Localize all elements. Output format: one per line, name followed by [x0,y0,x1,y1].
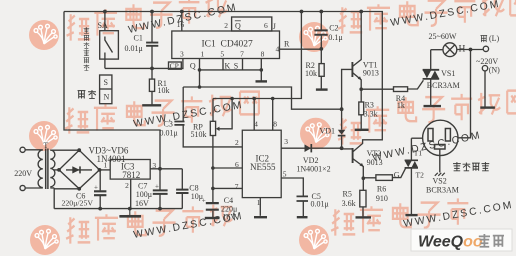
label reed switch chinese column [84,27,90,70]
svg-text:0.01μ: 0.01μ [160,129,178,138]
svg-text:J: J [273,22,276,31]
svg-text:N: N [104,93,110,102]
svg-text:BCR3AM: BCR3AM [426,185,459,194]
resistor R5 [360,178,366,216]
node VD1 top junction [340,107,344,111]
wire pin3 CP stub [182,59,184,70]
resistor R2 [319,49,324,89]
ground below C4 [205,217,220,219]
node C6 bottom [98,207,102,211]
wire pin16 stub [181,12,183,32]
capacitor C4 [206,203,219,217]
terminal L [483,46,488,51]
diode VD1 [338,109,346,148]
capacitor C1 [146,12,158,69]
terminal N [482,66,487,71]
wire IC1 pin4 R reset [280,48,322,50]
svg-text:16V: 16V [222,212,236,221]
node pin7 tap [211,187,215,191]
magnet S/N box [100,75,112,104]
svg-text:220V: 220V [14,169,32,178]
ground below VS1 [424,105,442,107]
ground below R3 [355,129,369,131]
svg-text:C1: C1 [134,34,143,43]
IC IC2 NE555 [242,130,281,197]
svg-text:VS1: VS1 [441,69,455,78]
wire socket right riser [458,50,471,138]
svg-text:10k: 10k [305,69,317,78]
row E bottom-left [66,217,90,243]
svg-text:Q: Q [235,21,241,30]
capacitor C8 [176,169,188,209]
ground below N [480,106,495,108]
transistor VT2 [342,12,383,179]
wire pin5 stub [222,59,224,70]
wire ground minus rail [54,208,182,210]
triac VS2 [405,138,418,214]
wire pin8 stub [260,59,262,82]
svg-text:1N4001×2: 1N4001×2 [296,165,330,174]
triac VS1 [423,50,440,105]
svg-text:2: 2 [235,138,239,147]
potentiometer RP [210,99,232,136]
svg-text:VD1: VD1 [320,126,336,135]
row B top-right [338,7,362,33]
wire IC1 pin2 Qbar to pin6 J link [232,17,272,31]
reed switch SA [100,12,119,69]
bridge rectifier VD3-VD6 [57,148,101,190]
svg-text:0.01μ: 0.01μ [125,44,143,53]
svg-text:R: R [284,40,290,49]
wire pin3 output [281,147,341,149]
svg-text:S: S [234,61,238,70]
svg-text:WeeQoo: WeeQoo [418,234,483,251]
svg-text:5: 5 [220,50,224,59]
node pin4 [252,97,256,101]
svg-text:5: 5 [283,170,287,179]
wire VDD net (wire-B) [213,12,301,99]
svg-text:(L): (L) [489,34,500,43]
label fan chinese [453,162,489,171]
svg-text:16: 16 [177,20,185,29]
capacitor C5 [297,196,309,216]
ground below R5 [356,216,372,218]
wire socket left to VS2 [411,137,422,139]
svg-text:+: + [155,183,159,191]
svg-text:C3: C3 [164,119,173,128]
node SA top [103,10,107,14]
wire pin5 link [281,178,303,196]
wire +12V top rail [64,11,383,13]
svg-text:VS2: VS2 [433,177,447,186]
logo circle top-mid [299,22,329,52]
resistor R4 [361,80,423,91]
transformer T [20,147,55,190]
svg-text:IC1 CD4027: IC1 CD4027 [202,40,253,50]
svg-text:CP: CP [170,62,179,71]
logo circle bottom-mid [299,225,329,255]
svg-text:C8: C8 [189,183,198,192]
svg-text:G: G [394,171,400,180]
wire N to ground [484,71,486,107]
ground below R1 [142,104,161,106]
node pin8 IC2 [271,97,275,101]
wire pin7 stub [242,59,244,70]
node riser top [300,10,304,14]
node R reset [319,47,323,51]
ground below C5 [297,216,308,218]
ground below VS2 [405,214,417,216]
row D mid-right [338,118,362,144]
svg-text:3.3k: 3.3k [364,109,378,118]
lamp H [431,43,484,57]
svg-text:10k: 10k [158,86,170,95]
svg-text:220μ/25V: 220μ/25V [62,199,94,208]
svg-text:1k: 1k [397,101,405,110]
svg-text:3: 3 [152,161,156,170]
svg-text:+: + [94,184,98,192]
wire Q output (wire-A) [183,87,341,109]
svg-text:10μ: 10μ [191,192,203,201]
svg-text:7812: 7812 [122,170,140,180]
label magnet chinese [78,90,96,98]
node pin6 tap [211,166,215,170]
ground below pin8 [256,80,268,82]
svg-text:4: 4 [276,44,280,53]
svg-text:7: 7 [240,50,244,59]
node lamp right [469,48,473,52]
svg-text:VT2: VT2 [367,149,382,158]
wire pin7 link [213,187,242,189]
wire IC3 pin3 out [150,168,182,170]
svg-text:3.6k: 3.6k [342,199,356,208]
resistor R6 [363,168,405,180]
ground main below rail [119,209,141,217]
ground below IC2 pin1 [254,216,267,218]
capacitor C7 [153,169,168,209]
node VT2 emitter [362,176,366,180]
svg-text:4: 4 [254,119,258,128]
svg-text:100μ: 100μ [136,190,152,199]
wire secondary top to bridge [50,149,79,151]
transistor VT1 [352,12,361,90]
svg-text:NE555: NE555 [250,162,276,172]
svg-text:K: K [225,61,231,70]
resistor R1 [149,68,154,104]
resistor R3 [359,89,364,129]
svg-text:1: 1 [201,50,205,59]
capacitor C2 [314,12,327,49]
svg-text:2: 2 [125,181,129,190]
node IC3 pin2 bottom [128,207,132,211]
wire pin6 link [213,167,242,169]
svg-text:3: 3 [284,137,288,146]
wire SA/C1/R1/CP net [105,67,183,69]
logo circle top-left [29,20,59,50]
svg-text:Q: Q [190,62,196,71]
node C7 bottom [158,207,162,211]
node C2 top [319,10,323,14]
svg-text:SA: SA [98,21,108,30]
label box CP [169,62,182,69]
svg-text:6: 6 [235,160,239,169]
diode VD2 [305,144,312,152]
svg-text:910: 910 [376,194,388,203]
label L phase [480,35,487,42]
svg-text:T2: T2 [416,170,425,179]
svg-text:R6: R6 [377,185,386,194]
node C1 bottom junction [150,67,154,71]
svg-text:7: 7 [235,182,239,191]
svg-text:BCR3AM: BCR3AM [427,81,460,90]
svg-text:8: 8 [261,50,265,59]
node pin8 junction [260,68,264,72]
svg-text:1: 1 [257,198,261,207]
svg-text:R5: R5 [343,189,352,198]
ground below R2 [316,88,328,90]
capacitor C6 [94,170,106,209]
svg-text:0.01μ: 0.01μ [311,199,329,208]
node regulator output [158,167,162,171]
svg-text:S: S [104,78,108,87]
svg-text:25~60W: 25~60W [429,32,457,41]
logo circle bottom-left [30,225,60,255]
svg-text:510k: 510k [191,130,207,139]
svg-text:8: 8 [273,119,277,128]
wire K S S ground link [200,69,262,71]
svg-text:T: T [43,141,48,150]
wire RP lower to timing caps [212,136,214,203]
node RP wiper [230,97,234,101]
node VT1 emitter [359,87,363,91]
fan socket [423,120,458,176]
svg-text:9013: 9013 [367,158,383,167]
svg-text:3: 3 [180,50,184,59]
node pin16 top [180,10,184,14]
svg-text:9013: 9013 [363,69,379,78]
row A top-left [67,14,91,40]
logo circle mid-left [29,121,59,151]
svg-text:T1: T1 [414,149,423,158]
wire bridge plus to IC3 [100,169,111,171]
svg-text:(N): (N) [489,66,500,75]
wire pin1 Q descent [199,59,201,88]
svg-text:R3: R3 [365,101,374,110]
node Q junction [198,85,202,89]
gray WWW.DZSC.COM rows [127,0,514,241]
svg-text:~220V: ~220V [476,57,498,66]
wire pin8 stub [272,99,274,131]
wire IC3 pin2 stub [130,179,132,209]
svg-text:1: 1 [104,160,108,169]
row C mid-left [65,107,89,133]
svg-text:0.1μ: 0.1μ [328,33,342,42]
svg-text:H: H [459,45,466,55]
node VT1 collector top [359,10,363,14]
node C1 top [150,10,154,14]
node pin1 on link [198,68,202,72]
capacitor C3 [174,87,242,147]
logo circle mid-right [300,118,332,150]
wire VT1 base riser [342,69,353,109]
svg-text:6: 6 [264,21,268,30]
IC IC3 7812 [110,160,150,180]
svg-text:16V: 16V [135,199,149,208]
wire secondary mid to bridge left [54,169,60,171]
wire left feed drop from rail to regulator output [64,12,160,170]
node VT2 base junction [340,146,344,150]
svg-text:C2: C2 [329,23,338,32]
row F bottom-right [331,209,355,235]
IC IC1 CD4027 [172,31,280,59]
wire pin1 stub to ground [259,198,261,216]
wire secondary bottom / minus rail [50,188,79,209]
wire pin4 stub [253,99,255,131]
svg-text:2: 2 [224,21,228,30]
